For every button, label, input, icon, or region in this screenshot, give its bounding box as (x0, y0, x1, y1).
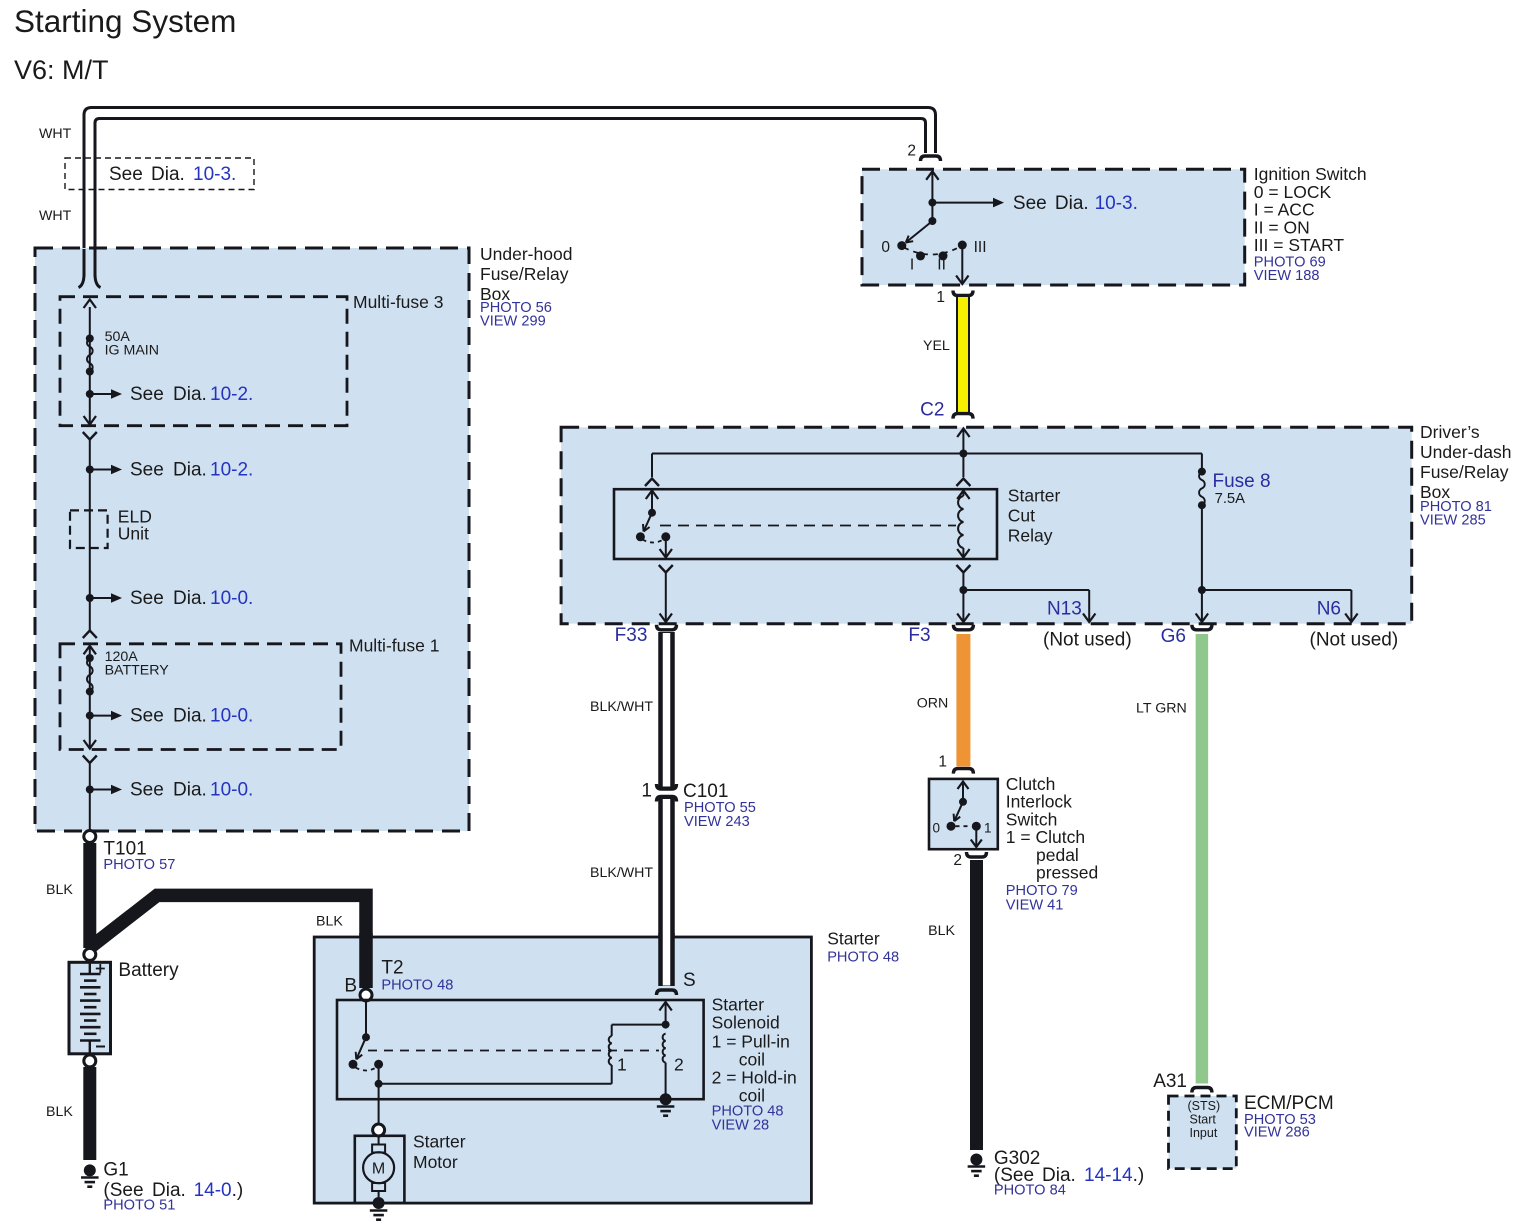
branch See Dia. 10-0 (inside Multi-fuse 1) (86, 712, 94, 720)
svg-text:PHOTO 84: PHOTO 84 (994, 1183, 1066, 1199)
junction dot to See Dia branch (928, 199, 936, 207)
ignition switch arm to 0 contact (906, 221, 933, 243)
svg-text:WHT: WHT (39, 126, 72, 142)
svg-text:SeeDia.10-0.: SeeDia.10-0. (130, 706, 253, 727)
wire segment Multi-fuse1 to T101 (89, 763, 91, 831)
junction dot above fuse 120A (86, 654, 94, 662)
clutch contact 1 (972, 822, 981, 831)
starter motor ground (373, 1197, 385, 1209)
svg-text:BLK: BLK (316, 914, 343, 930)
terminal F33 (657, 625, 677, 630)
svg-text:Driver’s: Driver’s (1420, 422, 1480, 442)
arrow into Multi-fuse 3 top (84, 300, 96, 309)
junction dot to N6 (1198, 586, 1206, 594)
svg-text:Multi-fuse 1: Multi-fuse 1 (349, 636, 439, 656)
terminal 2 of clutch interlock switch (967, 852, 987, 857)
pull-in coil 1 (611, 1065, 613, 1084)
solenoid switch arm (356, 1037, 366, 1059)
svg-text:SeeDia.10-3.: SeeDia.10-3. (1013, 193, 1138, 214)
wire Fuse 8 to G6 (1201, 505, 1203, 621)
svg-text:1: 1 (641, 781, 652, 802)
svg-text:1: 1 (936, 289, 945, 306)
terminal C2 (953, 414, 973, 419)
Clutch Interlock Switch box (929, 779, 998, 849)
terminal 1 of ignition switch (953, 291, 973, 296)
junction dot below Fuse 8 (1198, 501, 1206, 509)
svg-text:B: B (344, 976, 357, 997)
wire horizontal distribution inside under-dash box (652, 453, 1202, 455)
svg-text:Fuse/Relay: Fuse/Relay (480, 264, 569, 284)
wire BLK/WHT F33 to C101 (658, 632, 675, 788)
clutch contact dashed travel (956, 825, 972, 827)
wire WHT double-line from Under-hood box to Ignition Switch terminal 2 (84, 108, 936, 282)
contact 0 (897, 241, 906, 250)
svg-text:2: 2 (907, 143, 916, 160)
svg-text:0: 0 (881, 239, 890, 256)
junction dot below fuse 50A (86, 368, 94, 376)
svg-text:VIEW 243: VIEW 243 (684, 814, 750, 830)
wire BLK branch to Starter B terminal (diagonal + horizontal + drop) (92, 895, 366, 988)
svg-text:coil: coil (739, 1050, 765, 1070)
svg-text:Under-hood: Under-hood (480, 244, 572, 264)
wire BLK clutch switch to G302 (970, 860, 983, 1150)
svg-text:VIEW 41: VIEW 41 (1006, 898, 1064, 914)
svg-text:IG MAIN: IG MAIN (105, 343, 159, 359)
wire coil1 top to S junction (612, 1024, 666, 1026)
svg-text:Fuse 8: Fuse 8 (1213, 471, 1271, 492)
svg-text:Solenoid: Solenoid (712, 1013, 780, 1033)
svg-text:BLK: BLK (928, 923, 955, 939)
svg-text:PHOTO 51: PHOTO 51 (103, 1198, 175, 1214)
chevron above Multi-fuse 1 (83, 631, 97, 639)
Multi-fuse 1 box (dashed) (60, 644, 341, 750)
arrow out of Multi-fuse 3 bottom (84, 416, 96, 425)
solenoid output junction dot (375, 1080, 383, 1088)
svg-text:Input: Input (1190, 1126, 1218, 1140)
svg-text:Starter: Starter (413, 1132, 466, 1152)
arrow out of Multi-fuse 1 bottom (84, 740, 96, 749)
svg-text:BATTERY: BATTERY (105, 663, 170, 679)
svg-text:N13: N13 (1047, 599, 1082, 620)
Driver's Under-dash Fuse/Relay Box (dashed) (561, 427, 1412, 623)
terminal B (open circle) (360, 989, 372, 1001)
clutch switch arm to 0 (954, 802, 963, 821)
entry arrow from C2 (962, 430, 964, 454)
svg-text:2: 2 (674, 1055, 684, 1075)
svg-text:1: 1 (617, 1055, 627, 1075)
relay switch arm (644, 513, 652, 532)
wire BLK T101 to Battery positive (83, 843, 96, 948)
svg-text:M: M (372, 1161, 385, 1178)
svg-text:WHT: WHT (39, 208, 72, 224)
Starter Cut Relay box (614, 489, 997, 559)
battery (69, 962, 111, 1054)
svg-text:Under-dash: Under-dash (1420, 442, 1511, 462)
svg-text:ECM/PCM: ECM/PCM (1244, 1093, 1334, 1114)
svg-text:0: 0 (932, 821, 940, 836)
svg-text:VIEW 285: VIEW 285 (1420, 513, 1486, 529)
svg-text:III = START: III = START (1254, 235, 1345, 255)
starter motor symbol (378, 1136, 380, 1145)
svg-text:coil: coil (739, 1086, 765, 1106)
wire III contact to terminal 1 (961, 245, 963, 284)
wire relay output to F33 (665, 573, 667, 622)
wire YEL ignition to under-dash C2 (956, 296, 970, 414)
svg-text:I: I (910, 257, 914, 274)
solenoid contact right (374, 1060, 383, 1069)
svg-text:Fuse/Relay: Fuse/Relay (1420, 462, 1509, 482)
svg-text:N6: N6 (1317, 599, 1341, 620)
branch See Dia. 10-0 (first) (86, 594, 94, 602)
fuse 120A BATTERY (Multi-fuse 1) (87, 658, 93, 692)
wire junction to pull-in coil bottom (379, 1083, 612, 1085)
svg-text:A31: A31 (1153, 1071, 1187, 1092)
branch See Dia. 10-3 (ignition) (932, 202, 994, 204)
ignition switch pivot dot (928, 217, 936, 225)
relay pivot dot (648, 509, 656, 517)
svg-text:Motor: Motor (413, 1152, 458, 1172)
svg-text:PHOTO 48: PHOTO 48 (827, 950, 899, 966)
svg-text:Starter: Starter (1008, 486, 1061, 506)
arrow to S terminal (665, 1003, 667, 1025)
ground G1 (84, 1164, 96, 1176)
Under-hood Fuse/Relay Box (dashed) (35, 248, 469, 831)
wire: main vertical feed in under-hood box (89, 307, 91, 424)
svg-text:F33: F33 (615, 625, 648, 646)
solenoid pivot dot (362, 1033, 370, 1041)
branch See Dia. 10-2 (inside Multi-fuse 3) (86, 390, 94, 398)
reference box See Dia. 10-3 (top left) (65, 158, 254, 190)
svg-text:SeeDia.10-2.: SeeDia.10-2. (130, 384, 253, 405)
svg-text:PHOTO 57: PHOTO 57 (103, 857, 175, 873)
ignition switch internal wire from terminal 2 (931, 173, 933, 221)
junction dot below fuse 120A (86, 688, 94, 696)
ECM/PCM box (dashed) (1169, 1096, 1237, 1169)
chevron below relay (contact side) (659, 565, 673, 573)
terminal 2 of ignition switch (921, 156, 941, 161)
svg-text:Relay: Relay (1008, 526, 1053, 546)
relay contact dashed travel arc (643, 540, 664, 543)
Starter Motor box (355, 1136, 405, 1203)
junction dot to N13 (959, 586, 967, 594)
branch See Dia. 10-0 (third) (86, 786, 94, 794)
solenoid contact dashed travel arc (356, 1068, 377, 1071)
svg-text:V6: M/T: V6: M/T (14, 55, 109, 85)
svg-text:Multi-fuse 3: Multi-fuse 3 (353, 292, 443, 312)
terminal G6 (1192, 625, 1212, 630)
node battery negative (open circle) (84, 1055, 96, 1067)
solenoid armature dashed link to coils (368, 1050, 659, 1052)
wire BLK/WHT segment to S inside starter box (658, 933, 675, 986)
contact I (916, 251, 925, 260)
svg-text:VIEW 299: VIEW 299 (480, 314, 546, 330)
svg-text:ORN: ORN (917, 696, 949, 712)
wire segment Multi-fuse3 to Multi-fuse1 (89, 440, 91, 631)
svg-text:T2: T2 (381, 958, 403, 979)
arrow into Multi-fuse 1 top (89, 646, 91, 748)
branch See Dia. 10-2 (second) (86, 466, 94, 474)
svg-text:pressed: pressed (1036, 863, 1098, 883)
S junction dot (662, 1021, 670, 1029)
relay contact output (right) (661, 532, 670, 541)
relay contact output wire to relay bottom (665, 537, 667, 557)
connector C101 pin 1 (657, 784, 677, 789)
clutch switch pivot dot (959, 798, 967, 806)
svg-text:1 = Pull-in: 1 = Pull-in (712, 1032, 790, 1052)
wire drop to relay contact side (651, 454, 653, 478)
Starter box (314, 937, 811, 1203)
Multi-fuse 3 box (dashed) (60, 297, 347, 426)
Ignition Switch box (dashed) (862, 169, 1245, 285)
svg-text:II: II (937, 257, 946, 274)
svg-text:BLK/WHT: BLK/WHT (590, 699, 653, 715)
chevron below relay (coil side) (956, 565, 970, 573)
svg-text:SeeDia.10-2.: SeeDia.10-2. (130, 460, 253, 481)
clutch contact 0 (947, 822, 956, 831)
relay contact open (left) (636, 532, 645, 541)
svg-text:Unit: Unit (118, 524, 149, 544)
svg-text:PHOTO 48: PHOTO 48 (381, 978, 453, 994)
svg-text:Start: Start (1190, 1113, 1217, 1127)
svg-text:BLK: BLK (46, 882, 73, 898)
wire BLK/WHT C101 to starter S (658, 798, 675, 987)
svg-text:(Not used): (Not used) (1310, 630, 1399, 651)
wire LT GRN G6 to ECM/PCM A31 (1196, 634, 1209, 1084)
solenoid contact left (349, 1060, 358, 1069)
fuse 8 7.5A (1199, 472, 1205, 506)
svg-text:VIEW 28: VIEW 28 (712, 1118, 770, 1134)
wire BLK battery negative to G1 (83, 1067, 96, 1160)
svg-text:G1: G1 (103, 1160, 128, 1181)
branch wire to N6 (not used) (1202, 589, 1352, 591)
relay armature dashed link to coil (660, 525, 956, 527)
wire ORN F3 to clutch interlock switch (956, 634, 970, 767)
svg-text:G6: G6 (1161, 626, 1186, 647)
battery plus sign (96, 964, 105, 973)
svg-text:VIEW 286: VIEW 286 (1244, 1125, 1310, 1141)
svg-text:YEL: YEL (923, 338, 950, 354)
svg-text:Starter: Starter (827, 929, 880, 949)
svg-text:F3: F3 (908, 625, 930, 646)
branch wire to N13 (not used) (963, 589, 1089, 591)
clutch switch entry arrow (962, 783, 964, 802)
junction dot above Fuse 8 (1198, 468, 1206, 476)
node battery positive (open circle) (84, 948, 96, 960)
svg-text:SeeDia.10-0.: SeeDia.10-0. (130, 780, 253, 801)
svg-text:S: S (683, 970, 696, 991)
svg-text:C101: C101 (683, 781, 728, 802)
wire solenoid output to starter motor (378, 1084, 380, 1124)
svg-text:1: 1 (938, 754, 947, 771)
fuse 8 feed drop (1201, 454, 1203, 472)
chevron above relay (contact side) (645, 479, 659, 487)
contact II (939, 251, 948, 260)
svg-text:BLK: BLK (46, 1104, 73, 1120)
junction dot above fuse 50A (86, 335, 94, 343)
ignition rotary dashed arc through I and II (904, 247, 961, 255)
battery minus sign (96, 1046, 105, 1048)
Starter Solenoid inner box (337, 1000, 704, 1099)
relay coil (958, 496, 963, 548)
svg-text:C2: C2 (920, 400, 944, 421)
svg-text:BLK/WHT: BLK/WHT (590, 865, 653, 881)
svg-text:Cut: Cut (1008, 506, 1035, 526)
node T101 (open circle at box edge) (84, 831, 96, 843)
wire end flare at Under-hood fuse box entry (79, 276, 84, 288)
wire WHT segment inside under-hood box with flared end (83, 249, 86, 276)
fuse 50A IG MAIN (Multi-fuse 3) (87, 339, 93, 372)
svg-text:Battery: Battery (118, 960, 179, 981)
ground G302 (970, 1154, 982, 1166)
svg-text:LT GRN: LT GRN (1136, 701, 1187, 717)
svg-text:SeeDia.10-0.: SeeDia.10-0. (130, 588, 253, 609)
chevron below Multi-fuse 3 (83, 432, 97, 440)
svg-text:7.5A: 7.5A (1215, 491, 1246, 507)
chevron above relay (coil side) (956, 479, 970, 487)
terminal F3 (953, 625, 973, 630)
relay coil exit arrow (957, 549, 969, 558)
svg-text:Starter: Starter (712, 995, 765, 1015)
solenoid coil ground (660, 1093, 672, 1105)
terminal 1 of clutch interlock switch (953, 769, 973, 774)
contact III (958, 241, 967, 250)
solenoid switch feed from B (365, 1001, 367, 1037)
clutch output wire to terminal 2 (975, 826, 977, 846)
svg-text:(Not used): (Not used) (1043, 630, 1132, 651)
svg-text:VIEW 188: VIEW 188 (1254, 268, 1320, 284)
junction dot at C2 feed (959, 450, 967, 458)
svg-text:SeeDia.10-3.: SeeDia.10-3. (109, 164, 236, 185)
svg-text:Starting System: Starting System (14, 3, 236, 39)
node between solenoid and motor (open circle) (373, 1124, 385, 1136)
relay contact entry arrow (651, 492, 653, 513)
svg-text:(STS): (STS) (1188, 1099, 1221, 1113)
chevron below Multi-fuse 1 (83, 756, 97, 764)
relay coil entry arrow (962, 492, 964, 497)
hold-in coil 2 (663, 1034, 666, 1063)
svg-text:1: 1 (984, 821, 992, 836)
wire BLK segment to B inside starter box (359, 933, 373, 988)
terminal S of starter solenoid (657, 990, 677, 995)
ELD Unit box (dashed) (70, 510, 108, 548)
svg-text:2 = Hold-in: 2 = Hold-in (712, 1068, 797, 1088)
wire relay coil to F3 (962, 573, 964, 622)
terminal A31 (1192, 1088, 1212, 1093)
svg-text:III: III (974, 239, 987, 256)
wire drop to relay coil side (962, 454, 964, 478)
svg-text:2: 2 (953, 852, 962, 869)
